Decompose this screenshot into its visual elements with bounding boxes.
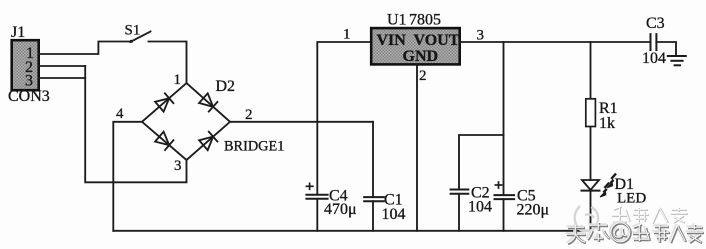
- svg-text:4: 4: [116, 106, 124, 122]
- watermark row1 highlight: [611, 206, 687, 223]
- diode bottom-left (4 to 3): [155, 132, 173, 150]
- svg-text:VOUT: VOUT: [414, 32, 460, 49]
- watermark row2 inner highlight: [566, 222, 703, 243]
- watermark logo blob: [575, 206, 598, 231]
- svg-text:2: 2: [419, 68, 427, 84]
- switch S1 pivot dot: [130, 40, 133, 43]
- wire bridge node 4 left and down to ground rail: [113, 122, 142, 231]
- svg-text:3: 3: [174, 158, 182, 174]
- connector J1 box: [12, 40, 39, 90]
- svg-text:3: 3: [477, 28, 485, 44]
- wire bridge node 2 to C1: [230, 121, 373, 123]
- wire VIN drop to node 2 rail: [317, 42, 371, 122]
- capacitor C5 plates: [495, 194, 515, 196]
- capacitor C4 leads: [316, 122, 318, 195]
- svg-text:470μ: 470μ: [324, 201, 357, 218]
- regulator U1 box: [371, 28, 460, 64]
- svg-text:2: 2: [245, 107, 253, 123]
- svg-text:LED: LED: [617, 191, 646, 207]
- diode top-right (1 to 2): [199, 93, 217, 111]
- svg-text:1: 1: [174, 72, 182, 88]
- svg-text:BRIDGE1: BRIDGE1: [224, 139, 284, 155]
- label C5 plus: [495, 181, 503, 189]
- svg-text:104: 104: [642, 50, 666, 67]
- watermark row1 "wei xiu ren jia": [612, 207, 688, 224]
- svg-text:CON3: CON3: [8, 88, 50, 105]
- svg-text:VIN: VIN: [377, 32, 407, 49]
- svg-text:1k: 1k: [599, 115, 615, 132]
- svg-text:104: 104: [382, 206, 406, 223]
- svg-text:104: 104: [468, 199, 492, 216]
- diode bottom-right (3 to 2): [199, 132, 217, 150]
- svg-text:220μ: 220μ: [517, 202, 550, 219]
- capacitor C2 plates: [451, 189, 469, 191]
- wire U1 GND pin 2 to rail: [416, 64, 418, 230]
- wire J1 pin1 to switch: [39, 42, 131, 55]
- wire C3 to ground: [656, 42, 676, 56]
- watermark row2 main: [567, 223, 704, 244]
- svg-text:D2: D2: [216, 78, 236, 95]
- svg-text:J1: J1: [11, 24, 25, 41]
- capacitor C1 plates: [364, 196, 384, 198]
- capacitor C2 lower lead: [458, 194, 460, 231]
- resistor R1 body: [586, 99, 596, 127]
- svg-text:3: 3: [25, 73, 33, 90]
- LED D1 light arrows: [600, 174, 616, 197]
- wire J1 pin2: [39, 65, 85, 67]
- svg-text:S1: S1: [125, 23, 141, 39]
- diode top-left (4 to 1): [155, 93, 173, 111]
- svg-text:1: 1: [343, 27, 351, 43]
- ground symbol: [668, 56, 686, 65]
- switch S1 blade: [130, 32, 150, 43]
- label C4 plus: [306, 183, 314, 191]
- LED D1 triangle: [582, 180, 599, 190]
- LED D1 lower lead: [590, 191, 592, 231]
- wire C2 top tie: [459, 135, 504, 190]
- wire pins 2-3 down to bridge node 3: [85, 66, 186, 182]
- wire bottom ground rail: [113, 230, 590, 232]
- capacitor C3 plates: [650, 34, 652, 50]
- svg-text:GND: GND: [403, 48, 439, 65]
- wire switch to bridge node 1: [149, 42, 187, 84]
- capacitor C1 leads: [372, 122, 374, 197]
- LED D1 cathode bar: [582, 190, 600, 192]
- svg-text:U1: U1: [387, 12, 407, 29]
- capacitor C5 leads: [503, 42, 505, 195]
- svg-text:C3: C3: [646, 15, 665, 32]
- wire VOUT rail to C3: [460, 41, 650, 43]
- watermark row2 emboss light: [566, 222, 703, 243]
- svg-text:7805: 7805: [409, 12, 441, 29]
- resistor R1 leads: [590, 42, 592, 99]
- capacitor C4 plates: [306, 194, 327, 196]
- wire J1 pin3: [39, 77, 85, 79]
- bridge D2 diamond: [142, 83, 230, 160]
